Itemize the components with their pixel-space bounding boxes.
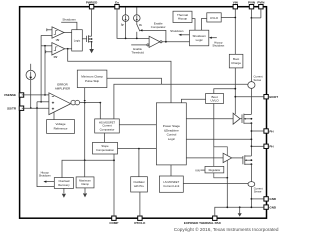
node junction PVIN: [251, 17, 253, 19]
block Maximum Clamp: [76, 177, 94, 188]
node junction VSENSE / OV sense: [44, 94, 46, 96]
pin EXPOSED THERMAL PAD: [184, 216, 222, 225]
svg-text:COMP: COMP: [109, 221, 118, 225]
svg-text:with PLL: with PLL: [134, 184, 145, 188]
node junction LS FET body: [251, 159, 253, 161]
wire LS FET source to current sense: [250, 164, 252, 182]
svg-text:UVLO: UVLO: [210, 16, 219, 20]
wire Power Stage to Boot UVLO input: [181, 99, 205, 103]
wire reference stub into error amplifier: [37, 101, 49, 103]
wire comparator output to power stage: [119, 124, 156, 126]
node junction clamp rail to COMP riser: [113, 159, 115, 161]
svg-text:Shutdown: Shutdown: [212, 44, 224, 48]
current sense LS (circle): [248, 182, 263, 194]
wire COMP to HS MOSFET current comparator: [99, 103, 101, 119]
node Shutdown label (top-left): [61, 17, 77, 29]
node junction LS FET source: [251, 163, 253, 165]
wire VSENSE to error amplifier: [22, 94, 49, 96]
svg-text:Shutdown: Shutdown: [62, 17, 76, 21]
wire COMP node down to clamp rail: [84, 103, 86, 161]
block Voltage Reference: [47, 112, 75, 133]
node junction GND2: [251, 206, 253, 208]
pin RT/CLK: [134, 216, 146, 225]
wire current sense signal rail: [114, 84, 248, 119]
svg-text:VIN: VIN: [233, 0, 238, 4]
node junction on reference stub: [40, 101, 42, 103]
node junction Ih on En wire: [136, 38, 138, 40]
node junction oscillator tap: [138, 148, 140, 150]
pin SS/TR: [7, 106, 24, 110]
svg-text:Compensation: Compensation: [96, 148, 114, 152]
pin PWRGD: [86, 0, 98, 9]
svg-text:SS/TR: SS/TR: [7, 106, 17, 110]
svg-text:I h: I h: [139, 23, 142, 27]
svg-text:+: +: [52, 107, 55, 112]
wire error amplifier output: [80, 102, 101, 104]
node junction SS current source on SS/TR wire: [30, 107, 32, 109]
svg-text:Maximum: Maximum: [79, 178, 91, 182]
svg-text:PVIN: PVIN: [248, 0, 255, 4]
pin PH 1: [264, 129, 274, 134]
wire Enable Threshold input: [131, 45, 147, 55]
wire Logic to PWRGD FET gate: [82, 38, 86, 40]
block Oscillator with PLL: [131, 149, 148, 216]
wire Shutdown output arrow from Shutdown Logic: [170, 29, 189, 36]
wire enable comparator output feedback to switch: [140, 29, 166, 42]
svg-text:Logic: Logic: [74, 39, 81, 43]
svg-text:Hiccup: Hiccup: [178, 17, 188, 21]
wire phase node rail: [250, 123, 252, 156]
node junction boot rail and Boot UVLO: [234, 88, 236, 90]
block Slope Compensation: [93, 142, 118, 154]
wire Boot Charge down to HS driver supply: [234, 68, 236, 114]
svg-text:Comparator: Comparator: [100, 127, 115, 131]
wire slope compensation to power stage: [118, 148, 157, 150]
block Power Stage and Deadtime Control Logic: [156, 103, 186, 165]
op-amp ERROR AMPLIFIER: [49, 83, 80, 115]
wire PVIN pins tie: [251, 9, 261, 18]
node junction COMP at error amp output: [84, 102, 86, 104]
ground symbol below PWRGD FET: [89, 42, 94, 54]
wire PWRGD pin to FET drain: [91, 9, 93, 36]
node junction SS/TR tap: [36, 107, 38, 109]
svg-text:Charge: Charge: [231, 61, 241, 65]
svg-text:UV: UV: [56, 38, 60, 42]
block LS MOSFET Current Limit: [159, 176, 183, 192]
wire UV output to Logic: [64, 32, 72, 34]
wire OV input from VSENSE: [41, 45, 52, 47]
current source Ih with hysteresis switch: [134, 8, 142, 39]
svg-text:PH: PH: [269, 129, 273, 133]
wire current sense to GND pins: [250, 187, 252, 208]
wire OV node down and across to Power Stage logic: [68, 49, 171, 103]
pin GND 2: [264, 205, 277, 210]
svg-text:Shutdown: Shutdown: [39, 174, 51, 178]
wire Boot UVLO sense hook to boot rail: [214, 89, 236, 94]
wire OV ref input with tick: [46, 50, 52, 53]
op-amp HS gate driver: [233, 113, 240, 124]
wire UV inverting input from VSENSE: [41, 34, 52, 36]
wire Boot UVLO down to LS driver block: [213, 104, 215, 147]
svg-text:Sense: Sense: [254, 78, 262, 82]
wire power stage to LS current limit: [170, 165, 172, 176]
wire UV sense vertical: [40, 35, 42, 101]
svg-text:Regulator: Regulator: [209, 168, 221, 172]
svg-text:Clamp: Clamp: [81, 182, 89, 186]
svg-text:Threshold: Threshold: [131, 51, 144, 55]
wire comparator to slope compensation: [104, 133, 106, 142]
block HS MOSFET Current Comparator: [95, 119, 120, 133]
wire SS/TR down to Overload Recovery: [37, 102, 54, 187]
svg-text:VIN: VIN: [195, 168, 200, 172]
svg-text:Logic: Logic: [168, 137, 176, 141]
node junction HS FET body: [251, 118, 253, 120]
transistor PWRGD open-drain FET: [87, 35, 93, 47]
svg-text:UVLO: UVLO: [211, 99, 220, 103]
pin VSENSE: [4, 93, 24, 97]
node junction clamp rail maximum clamp: [84, 159, 86, 161]
svg-text:I p: I p: [121, 22, 124, 26]
wire SS/TR to error amplifier: [22, 107, 49, 109]
wire LS driver supply loop: [214, 147, 228, 178]
node junction VIN and UVLO: [234, 17, 236, 19]
pin PVIN 2: [257, 0, 264, 9]
comparator UV: [52, 27, 64, 42]
wire OV sense vertical: [44, 46, 46, 95]
node junction Ip on En wire: [125, 38, 127, 40]
node junction HS FET source: [251, 122, 253, 124]
wire power stage to LS driver input: [186, 157, 223, 159]
wire En pin down and to enable comparator: [117, 9, 149, 39]
block Thermal Hiccup: [173, 11, 192, 22]
svg-text:+: +: [52, 100, 55, 105]
svg-text:Reference: Reference: [54, 126, 68, 130]
wire UVLO to Shutdown Logic: [201, 19, 206, 31]
pin VIN: [233, 0, 238, 9]
wire Hiccup Shutdown input arrow to Shutdown Logic: [209, 37, 225, 48]
wire PH pin 1 stub: [251, 130, 264, 132]
block Regulator: [195, 166, 224, 173]
wire COMP pin riser: [113, 154, 115, 216]
svg-text:OV: OV: [54, 55, 58, 59]
svg-text:En: En: [115, 0, 119, 4]
wire driver ground drop: [226, 178, 228, 208]
node junction GND1: [251, 198, 253, 200]
logic block U-pgood Logic: [72, 30, 83, 51]
current source Ip: [121, 8, 129, 39]
svg-text:−: −: [52, 94, 55, 99]
wire LS current limit to LS current sense: [183, 182, 248, 184]
svg-text:BOOT: BOOT: [269, 95, 278, 99]
node junction OV output: [67, 48, 69, 50]
block UVLO: [207, 13, 221, 22]
pin COMP: [109, 216, 118, 225]
wire maximum clamp drop: [84, 160, 86, 177]
wire current sense to HS FET drain: [250, 88, 252, 114]
svg-text:Comparator: Comparator: [151, 25, 166, 29]
pin BOOT: [264, 95, 278, 100]
svg-text:Recovery: Recovery: [58, 183, 70, 187]
pin PH 2: [264, 144, 274, 149]
block Boot Charge: [229, 54, 243, 68]
block Shutdown Logic: [190, 30, 209, 46]
wire Minimum Clamp to current sense rail: [107, 78, 162, 84]
wire Thermal Hiccup to Shutdown Logic: [192, 19, 195, 31]
svg-text:Oscillator: Oscillator: [133, 180, 144, 184]
IC outer boundary box: [20, 7, 267, 219]
wire clamp rail: [62, 160, 114, 177]
svg-text:VSENSE: VSENSE: [4, 93, 16, 97]
transistor HS MOSFET: [240, 114, 251, 124]
pin GND 1: [264, 197, 277, 202]
wire Power Stage to HS driver input: [186, 118, 233, 120]
svg-text:EXPOSED THERMAL PAD: EXPOSED THERMAL PAD: [184, 221, 222, 225]
pin En: [115, 0, 119, 9]
ground symbol below Maximum Clamp: [83, 188, 87, 198]
wire UV ref input with tick: [47, 28, 52, 31]
op-amp Enable Comparator: [147, 22, 166, 48]
svg-text:PH: PH: [269, 145, 273, 149]
node junction PH2: [251, 145, 253, 147]
current sense HS (circle): [248, 75, 263, 89]
svg-text:PVIN: PVIN: [257, 0, 264, 4]
svg-text:PWRGD: PWRGD: [86, 0, 98, 4]
block Overload Recovery: [54, 178, 73, 189]
svg-text:Pulse Skip: Pulse Skip: [85, 79, 100, 83]
svg-text:GND: GND: [269, 197, 277, 201]
node junction error amp output to comparator: [99, 102, 101, 104]
node junction pad bus driver ground: [226, 206, 228, 208]
block Boot UVLO: [206, 94, 224, 104]
node junction boot rail and BOOT wire: [234, 96, 236, 98]
transistor LS MOSFET: [232, 155, 252, 165]
wire enable comparator output to Shutdown Logic: [162, 41, 189, 43]
svg-text:Sense: Sense: [254, 190, 262, 194]
node junction driver loop bottom: [226, 177, 228, 179]
svg-text:Logic: Logic: [196, 38, 204, 42]
svg-text:RT/CLK: RT/CLK: [134, 221, 146, 225]
comparator OV: [52, 43, 65, 59]
block Minimum Clamp Pulse Skip: [77, 70, 107, 88]
wire Power Stage to phase node: [186, 138, 251, 140]
wire Hiccup Shutdown arrow from Overload Recovery: [39, 171, 55, 183]
svg-text:Current Limit: Current Limit: [163, 184, 179, 188]
wire exposed pad ground bus: [215, 207, 264, 216]
node junction pad bus: [239, 206, 241, 208]
node junction comparator output: [165, 41, 167, 43]
wire OV output to Logic: [65, 48, 72, 50]
current source SS/TR charge: [26, 64, 35, 108]
wire PVIN rail down to current sense: [250, 18, 252, 82]
svg-text:Copyright © 2016, Texas Instru: Copyright © 2016, Texas Instruments Inco…: [174, 226, 279, 232]
wire GND pin 1 stub: [251, 198, 264, 200]
ground symbol below Overload Recovery: [62, 188, 66, 197]
pin PVIN 1: [248, 0, 255, 9]
node junction phase sense: [251, 138, 253, 140]
svg-text:Shutdown: Shutdown: [170, 29, 184, 33]
wire Minimum Clamp arrow down to COMP node: [84, 88, 86, 102]
wire PH pin 2 stub: [251, 145, 264, 147]
svg-text:Overload: Overload: [58, 179, 69, 183]
node junction PH1: [251, 130, 253, 132]
wire UVLO to VIN rail: [221, 17, 235, 19]
op-amp LS gate driver: [223, 153, 232, 162]
svg-text:GND: GND: [269, 205, 277, 209]
ground symbol on pad bus: [238, 207, 242, 216]
wire VIN pin down to Boot Charge: [234, 9, 236, 54]
svg-text:AMPLIFIER: AMPLIFIER: [55, 86, 70, 90]
wire BOOT pin: [235, 96, 264, 98]
